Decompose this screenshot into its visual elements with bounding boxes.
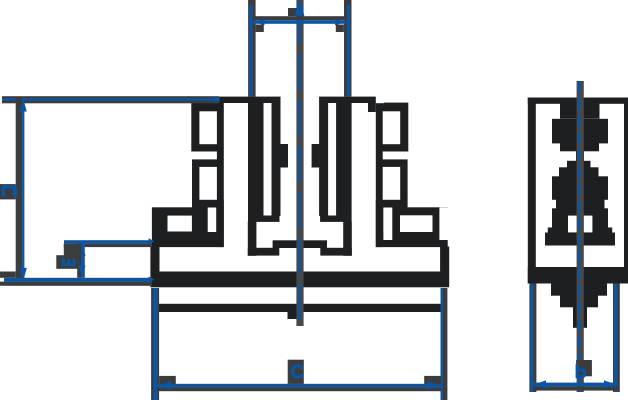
dimension E: label E (rotated) — [62, 258, 76, 266]
dimension C: left extension dark — [151, 288, 159, 400]
dimension D/E: bottom extension arrow nub — [149, 276, 155, 282]
dimension C: right extension blue — [441, 288, 443, 400]
dimension D/E: bottom extension blue — [4, 278, 152, 282]
dimension A: left extension line blue — [249, 5, 252, 96]
dimension C: gray block right — [424, 376, 441, 384]
dimension A: right extension line blue — [347, 5, 350, 96]
dimension C: left extension blue — [154, 288, 158, 400]
dimension F: left arrowhead — [534, 380, 547, 388]
side view: blob2 wide — [552, 176, 608, 185]
side view: plate band — [528, 267, 628, 284]
dimension A: left arrowhead — [254, 19, 265, 26]
dimension D: gray block at bottom left — [0, 272, 16, 278]
dimension D: top extension dark layers — [2, 96, 219, 103]
side view: blob2 top — [567, 161, 591, 168]
dimension E: top extension dark — [64, 244, 152, 248]
right-side asymmetry: wide foot window — [400, 215, 433, 232]
side view: base mass — [552, 185, 608, 200]
dimension D: vertical line blue — [22, 98, 24, 282]
dimension A: right arrowhead — [335, 19, 346, 26]
dimension A: gray block behind label — [288, 8, 297, 16]
side view: top bar — [528, 98, 628, 104]
main centerline dark column — [296, 0, 303, 326]
profile right half (mirrored) — [297, 97, 449, 312]
dimension F: dark line below — [533, 386, 617, 390]
dimension C: left arrowhead — [158, 381, 172, 389]
side view: slot block — [552, 208, 608, 232]
side view: blob1 tail — [560, 143, 599, 152]
dimension F: left extension blue — [530, 284, 533, 393]
dimension F: right extension dark — [613, 284, 620, 393]
dimension D: top extension blue core — [2, 98, 219, 101]
dimension F: right arrowhead — [604, 380, 617, 388]
bottom tab below plate2 — [288, 312, 302, 319]
profile left half — [150, 97, 302, 312]
side view: bridge — [576, 151, 584, 162]
side view: step1 below band — [551, 283, 607, 295]
dimension D: bottom arrowhead — [20, 268, 27, 281]
dimension C: blue dimension line — [157, 384, 441, 387]
dimension D: top arrowhead — [20, 99, 27, 112]
dimension C: gray block behind label — [288, 360, 304, 384]
dimension A: blue dimension line — [254, 20, 347, 24]
side view: blob2 mid — [559, 167, 599, 177]
dimension D: top extension arrow nub — [214, 97, 220, 102]
dimension A: label A — [295, 2, 305, 16]
dimension C: dark line below — [157, 387, 441, 391]
dimension A: gray block right — [336, 25, 344, 33]
side view: left slot — [568, 216, 577, 233]
dimension C: right arrowhead — [427, 381, 441, 389]
dimension D/E: bottom extension dark — [0, 282, 152, 286]
dimension F: left extension dark — [529, 284, 536, 393]
dimension E: gray staircase block — [64, 246, 82, 256]
svg-text:C: C — [291, 362, 304, 384]
dimension E: top extension blue — [64, 240, 152, 243]
dimension F: label b — [576, 364, 587, 378]
dimension E: vertical line blue — [81, 244, 85, 278]
dimension F: gray block behind label — [576, 360, 592, 376]
dimension D: gray block behind label — [0, 184, 16, 199]
side centerline blue dashes — [578, 81, 581, 392]
right-side asymmetry: foot edge step — [439, 208, 448, 241]
dimension E: top extension arrow nub — [149, 238, 155, 244]
side view: step2 below band — [560, 295, 598, 307]
side view: base 2 — [556, 199, 605, 208]
dimension A: dark bar above line — [254, 16, 347, 20]
dimension F: blue dimension line — [533, 383, 617, 387]
dimension F: right extension blue — [614, 284, 617, 393]
side view: right slot — [584, 216, 593, 233]
dimension D: vertical line dark — [16, 98, 22, 282]
side view: left wall — [528, 98, 536, 284]
main centerline blue dashes — [298, 0, 301, 323]
dimension E: top arrowhead — [78, 244, 85, 256]
dimension C: label C — [291, 362, 304, 384]
dimension A: right extension line dark — [344, 0, 352, 97]
right-side asymmetry: top plate end — [376, 96, 384, 103]
dimension C: gray block left — [159, 376, 176, 384]
side view: blob1 — [552, 119, 608, 144]
right-side asymmetry: plate end tab — [368, 103, 376, 112]
side view: bottom column — [573, 307, 587, 328]
right-side asymmetry: deep foot slot — [383, 208, 392, 241]
side view: flare row — [548, 228, 612, 233]
dimension A: left extension line dark — [248, 0, 256, 97]
side centerline dark column — [577, 81, 584, 392]
side view: floor bar — [545, 233, 615, 246]
dimension E: vertical line dark — [77, 244, 81, 278]
dimension D: label D (rotated) — [2, 185, 17, 196]
side view: neck — [560, 104, 600, 119]
dimension E: gray block behind label — [56, 255, 77, 269]
side view: right wall — [624, 98, 628, 284]
dimension E: bottom arrowhead — [78, 266, 85, 278]
dimension C: right extension dark — [441, 288, 448, 400]
dimension A: gray block left — [256, 25, 264, 33]
